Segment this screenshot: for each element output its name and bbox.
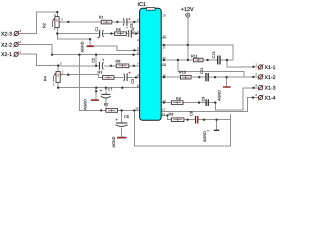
wire X2-2 to IC1 pin 4: [18, 44, 139, 54]
capacitor C5 polarized: [123, 18, 134, 28]
node C6 top: [120, 109, 122, 111]
wire X2-1 to R4 top: [18, 54, 58, 65]
node X1-1 in: [252, 66, 254, 68]
node row15 b: [187, 59, 189, 61]
svg-text:2: 2: [137, 18, 139, 22]
wire R4 junction right to cap C2: [58, 65, 99, 67]
node pin11: [166, 114, 168, 116]
wire C7 top stub: [105, 88, 107, 95]
wire IC1 pin 19 stub: [161, 37, 166, 39]
svg-text:C8: C8: [190, 111, 194, 116]
node row8 left: [57, 87, 59, 89]
svg-text:X1-1: X1-1: [265, 65, 276, 71]
svg-text:1: 1: [255, 63, 257, 67]
svg-text:2: 2: [62, 71, 64, 75]
node C9 out: [214, 101, 216, 103]
node X2-2 corner: [51, 54, 53, 56]
svg-text:3: 3: [137, 30, 139, 34]
wire R3 to C3: [114, 76, 123, 78]
svg-text:5: 5: [137, 47, 139, 51]
svg-text:C6: C6: [124, 115, 129, 119]
node pin4 end: [132, 54, 134, 56]
node X1-3 in: [252, 87, 254, 89]
node R12 out: [198, 101, 200, 103]
resistor R3: [98, 70, 115, 79]
svg-text:AGND: AGND: [203, 131, 207, 142]
capacitor C1 polarized: [95, 27, 103, 39]
wire R2 wiper to R1: [59, 21, 101, 23]
wire R4 wiper row to R3: [60, 75, 102, 78]
wire R2 top stub: [56, 12, 58, 17]
svg-text:10: 10: [162, 14, 166, 18]
node R7 in: [100, 109, 102, 111]
capacitor C11: [200, 67, 208, 81]
wire R9 to C8: [184, 119, 195, 121]
wire IC1 pin 15 to R11: [161, 59, 193, 61]
svg-text:IC1: IC1: [138, 2, 146, 8]
node R8 in: [110, 65, 112, 67]
svg-text:3: 3: [255, 83, 257, 87]
capacitor C8: [190, 111, 198, 123]
wire C8 to bottom loop: [198, 119, 230, 121]
node C11 out: [214, 76, 216, 78]
node C3 out: [135, 76, 137, 78]
wire C11 to X1-2: [209, 76, 259, 78]
wire IC1 pin 14 stub: [161, 65, 166, 67]
svg-text:3: 3: [20, 29, 22, 33]
wire AGND node stub: [89, 39, 91, 46]
node X1-4 in: [252, 96, 254, 98]
svg-text:+12V: +12V: [181, 7, 194, 13]
svg-text:C1: C1: [95, 27, 99, 32]
power +12V symbol: [181, 7, 194, 17]
resistor R7: [104, 103, 118, 112]
svg-text:R2: R2: [43, 23, 47, 28]
svg-text:17: 17: [162, 46, 166, 50]
IC pin numbers left: [135, 18, 139, 110]
wire R4 top stub: [57, 66, 59, 72]
svg-text:C4: C4: [132, 28, 136, 33]
svg-text:AGND: AGND: [218, 90, 222, 101]
svg-text:AGND: AGND: [84, 99, 88, 110]
svg-text:C2: C2: [92, 58, 96, 63]
potentiometer R2: [43, 13, 64, 31]
wire R4 bottom stub: [57, 82, 59, 88]
svg-text:6: 6: [137, 51, 139, 55]
svg-text:15: 15: [162, 56, 166, 60]
resistor R1: [99, 16, 112, 24]
svg-text:1: 1: [53, 83, 55, 87]
wire C1 to R5: [103, 33, 115, 35]
svg-text:R8: R8: [116, 60, 121, 64]
wire R5 to C4: [126, 33, 128, 35]
node R5 in: [110, 32, 112, 34]
node AGND mid b: [95, 90, 97, 92]
node pin3 end: [133, 49, 135, 51]
capacitor C4 polarized: [126, 28, 135, 38]
node C13 out: [226, 59, 228, 61]
svg-text:14: 14: [162, 62, 166, 66]
svg-text:3: 3: [54, 13, 56, 17]
ground AGND mid left: [84, 99, 99, 110]
svg-text:R5: R5: [116, 28, 121, 32]
wire C3 to IC1 pin 7: [127, 76, 139, 78]
node C4 out: [135, 32, 137, 34]
svg-text:X2-1: X2-1: [1, 52, 12, 58]
wire R1 to C5: [112, 21, 124, 23]
svg-text:2: 2: [20, 40, 22, 44]
node row15 a: [177, 59, 179, 61]
IC U1 body: [140, 8, 162, 120]
wire R2 bottom stub: [56, 28, 58, 34]
wire X2-3 to R2 top: [18, 12, 57, 33]
capacitor C7 polarized vertical: [100, 87, 112, 98]
wire AGND stub on C8 chain: [216, 120, 218, 130]
node AGND top: [89, 38, 91, 40]
svg-text:2: 2: [61, 18, 63, 22]
svg-text:C7: C7: [108, 87, 113, 91]
node row8 right: [121, 87, 123, 89]
connector X1-4: [255, 93, 275, 101]
node R8 out: [133, 65, 135, 67]
node AGND right top: [225, 76, 227, 78]
node R11 out: [206, 59, 208, 61]
wire C5 to IC1 pin 1: [127, 21, 139, 23]
node R4 top: [57, 64, 59, 66]
connector X2-1: [1, 50, 22, 58]
node C8 out: [203, 119, 205, 121]
capacitor C13: [212, 52, 220, 65]
svg-text:X2-3: X2-3: [1, 31, 12, 37]
wire C7 bottom stub: [105, 99, 107, 109]
resistor R11: [191, 54, 203, 61]
svg-text:R9: R9: [169, 112, 174, 116]
svg-text:X1-2: X1-2: [265, 75, 276, 81]
capacitor C6 polarized vertical: [115, 115, 128, 126]
node R7 out: [133, 109, 135, 111]
svg-text:X1-4: X1-4: [265, 95, 276, 101]
svg-text:7: 7: [137, 62, 139, 66]
svg-text:2: 2: [255, 73, 257, 77]
wire C4 to IC1 pin 2: [132, 33, 140, 35]
node mid54: [95, 54, 97, 56]
svg-text:R8: R8: [176, 97, 181, 101]
node pin15: [163, 59, 165, 61]
connector X1-2: [255, 73, 275, 81]
svg-text:R1: R1: [99, 16, 104, 20]
capacitor C3 polarized: [124, 72, 135, 84]
ground AGND bottom C6: [112, 136, 127, 147]
node pin13: [163, 101, 165, 103]
connector X1-1: [255, 63, 275, 71]
wire R12 to C9: [183, 102, 206, 104]
resistor R12: [171, 97, 183, 104]
svg-text:3: 3: [60, 61, 62, 65]
wire R10 to C11: [191, 76, 205, 78]
resistor R10: [179, 71, 191, 79]
svg-text:R4: R4: [44, 76, 48, 81]
svg-text:11: 11: [162, 112, 165, 116]
wire row8 from R4 bottom to IC1 pin 8: [58, 87, 139, 89]
ground AGND upper left: [81, 41, 94, 52]
wire step to X1-2: [178, 60, 254, 77]
node R9 out: [186, 119, 188, 121]
svg-text:C3: C3: [131, 79, 135, 84]
connector X2-3: [1, 29, 22, 37]
wire C13 to rail corner: [220, 59, 233, 61]
wire R2 bottom to C1: [57, 33, 99, 35]
wire branch X2-2 row down to C2 row: [95, 55, 97, 66]
svg-text:R7: R7: [104, 103, 109, 107]
connector X1-3: [255, 83, 275, 91]
wire drop to X1-1: [227, 60, 259, 67]
svg-text:10: 10: [135, 107, 139, 111]
node X1-2 in: [252, 76, 254, 78]
node x79 branch: [78, 54, 80, 56]
wire node at x79 down to R7 row: [79, 55, 106, 111]
svg-text:9: 9: [137, 84, 139, 88]
svg-text:C11: C11: [200, 67, 204, 74]
wire R7 to IC1 pin 9: [118, 109, 140, 111]
node C7 top: [105, 87, 107, 89]
node rail pin: [163, 44, 165, 46]
ground AGND right: [218, 87, 231, 101]
svg-text:8: 8: [137, 74, 139, 78]
wire pin 11 jog down to R9: [167, 115, 171, 119]
wire C6 top stub: [121, 110, 123, 122]
wire bottom return loop: [134, 110, 230, 146]
connector X2-2: [1, 40, 22, 48]
node +12V rail: [187, 44, 189, 46]
svg-text:13: 13: [162, 99, 166, 103]
wire R11 to C13: [203, 59, 217, 61]
node R10 out: [198, 76, 200, 78]
svg-text:C5: C5: [130, 23, 134, 28]
wire IC1 pin 16 to R10: [161, 76, 180, 78]
svg-text:4: 4: [137, 38, 139, 42]
IC pin numbers right: [162, 14, 166, 116]
wire IC1 pin 13 to R12: [161, 102, 171, 104]
capacitor C2 polarized: [92, 58, 105, 70]
node AGND mid a: [95, 87, 97, 89]
svg-text:AGND: AGND: [81, 41, 85, 52]
svg-text:R11: R11: [191, 54, 198, 58]
resistor R5: [115, 28, 127, 35]
svg-text:X1-3: X1-3: [265, 86, 276, 92]
node AGND tap: [215, 119, 217, 121]
wire R8 to IC1 pin 6: [129, 65, 140, 67]
wire IC1 pin 12 to X1-4: [161, 98, 258, 112]
node pin16: [163, 76, 165, 78]
node R2 wiper: [67, 21, 69, 23]
node R4 wiper: [67, 74, 69, 76]
svg-text:4: 4: [255, 93, 257, 97]
ground AGND bottom chain: [203, 130, 219, 142]
node C2 in: [95, 65, 97, 67]
resistor R9: [169, 112, 184, 121]
wire C2 to R8: [104, 65, 116, 67]
svg-text:19: 19: [162, 34, 166, 38]
svg-text:R3: R3: [98, 70, 103, 74]
potentiometer R4: [44, 61, 64, 86]
svg-text:X2-2: X2-2: [1, 42, 12, 48]
node R2 top: [56, 11, 58, 13]
node C5 out: [133, 21, 135, 23]
wire IC1 pin 11 stub: [161, 114, 167, 116]
svg-text:C13: C13: [212, 52, 216, 59]
svg-text:1: 1: [20, 50, 22, 54]
wire R2 bottom branch down to AGND node: [57, 34, 90, 40]
svg-text:1: 1: [54, 27, 56, 31]
svg-text:R10: R10: [179, 71, 186, 75]
svg-text:AGND: AGND: [112, 136, 116, 147]
wire C6 bottom to AGND: [121, 128, 123, 137]
wire AGND mid stub: [95, 88, 97, 100]
capacitor C9: [201, 97, 208, 106]
IC notch: [146, 8, 155, 11]
wire AGND right stub: [226, 77, 228, 86]
wire +12V rail from IC1 pin 18: [161, 45, 233, 60]
resistor R8: [116, 60, 129, 68]
wire +12V down to rail: [187, 17, 189, 60]
svg-text:16: 16: [162, 73, 166, 77]
wire C9 to X1-3: [209, 88, 259, 110]
wire AGND node to IC1 pin 3: [90, 46, 140, 50]
node R2 bottom: [56, 32, 58, 34]
svg-text:C9: C9: [201, 97, 205, 102]
node R1 out: [116, 21, 118, 23]
